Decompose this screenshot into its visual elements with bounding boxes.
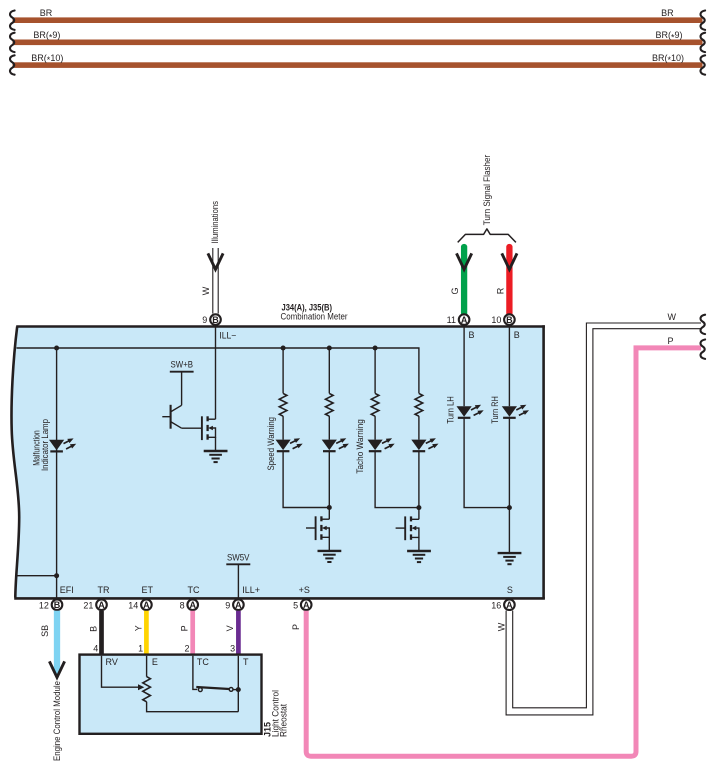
wire P pink +S long run [306, 348, 701, 756]
svg-text:5: 5 [293, 600, 298, 610]
continuation mark bar3 right [701, 55, 706, 74]
svg-text:12: 12 [39, 600, 49, 610]
svg-text:R: R [496, 287, 506, 294]
wire resistor bottom to T column [147, 702, 239, 712]
pin 12 B [52, 599, 63, 610]
continuation mark bar1 right [701, 11, 706, 30]
transistor Q1 SW+B bipolar [162, 372, 202, 429]
continuation mark bar2 left [10, 33, 15, 52]
resistor rheostat element [143, 677, 151, 702]
svg-text:Turn Signal Flasher: Turn Signal Flasher [482, 155, 492, 226]
svg-text:3: 3 [230, 643, 235, 653]
node T junction [236, 687, 241, 692]
wire tacho warning column 2 [418, 416, 420, 440]
continuation mark P wire [701, 340, 706, 359]
wire ILL- vertical from pin 9 to FET drain [215, 327, 217, 420]
svg-text:A: A [235, 600, 242, 610]
wire BR bar 1 [13, 17, 703, 23]
svg-text:SW+B: SW+B [171, 359, 194, 369]
svg-text:A: A [98, 600, 105, 610]
svg-text:TC: TC [188, 585, 200, 595]
svg-text:B: B [506, 315, 513, 325]
svg-text:ILL+: ILL+ [242, 585, 260, 595]
LED tacho warning 1 [368, 438, 395, 451]
pin 11 A [459, 314, 470, 325]
svg-text:E: E [152, 657, 158, 667]
arrow to engine control module [49, 661, 64, 677]
wire malfunction lamp column [56, 348, 58, 598]
ground (tacho warning) [407, 551, 431, 562]
resistor tacho warning 1 [371, 393, 379, 416]
svg-text:B: B [212, 315, 219, 325]
svg-text:B: B [89, 626, 99, 632]
wire R red [506, 247, 512, 314]
svg-text:A: A [506, 600, 513, 610]
wire W from pin 16 (double line) [506, 323, 701, 715]
svg-text:P: P [668, 336, 674, 346]
wire BR bar 3 [13, 62, 703, 68]
svg-text:Turn RH: Turn RH [490, 396, 500, 424]
resistor speed warning 1 [279, 393, 287, 416]
brace Turn Signal Flasher [458, 229, 516, 243]
svg-text:T: T [243, 657, 249, 667]
svg-text:A: A [143, 600, 150, 610]
wire E to resistor [146, 656, 148, 677]
svg-text:Turn LH: Turn LH [446, 396, 456, 424]
LED speed warning 2 [322, 438, 349, 451]
pin 14 A [141, 599, 152, 610]
svg-text:4: 4 [93, 643, 98, 653]
svg-text:A: A [303, 600, 310, 610]
node SW5V rail bar [226, 563, 250, 565]
wire B black TR to rheostat pin 4 [99, 611, 104, 655]
wire EFI branch to left edge [15, 575, 57, 577]
LED tacho warning 2 [411, 438, 438, 451]
svg-text:SW5V: SW5V [227, 553, 250, 563]
svg-text:Rheostat: Rheostat [279, 704, 289, 737]
pin 9 A [233, 599, 244, 610]
transistor U1 MOSFET (illumination driver) [202, 416, 216, 450]
node EFI junction [54, 573, 59, 578]
wire TC to switch contact [193, 656, 197, 690]
continuation mark bar2 right [701, 33, 706, 52]
svg-text:SB: SB [40, 625, 50, 637]
rheostat box J15 [80, 655, 262, 734]
svg-text:EFI: EFI [60, 585, 74, 595]
continuation mark bar1 left [10, 11, 15, 30]
continuation mark W wire [701, 315, 706, 334]
svg-text:Speed Warning: Speed Warning [266, 417, 276, 471]
transistor U3 MOSFET (tacho warning driver) [396, 516, 419, 550]
LED turn LH [457, 405, 484, 418]
pin 16 A [504, 599, 515, 610]
wire turn LH column [463, 327, 465, 407]
svg-text:10: 10 [491, 315, 501, 325]
ground (turn signals) [498, 553, 522, 564]
svg-text:9: 9 [202, 315, 207, 325]
wire W Illuminations double line [213, 248, 218, 314]
svg-text:16: 16 [491, 600, 501, 610]
svg-text:Indicator Lamp: Indicator Lamp [40, 419, 50, 471]
wire tacho FET drain feed [418, 508, 420, 520]
combination meter box J34/J35 [12, 327, 544, 598]
wire RV to wiper [102, 656, 139, 687]
node speed cathode junction [327, 505, 332, 510]
pin 8 A [187, 599, 198, 610]
resistor speed warning 2 [326, 393, 334, 416]
wiper arrowhead [138, 684, 144, 690]
wire P pink TC to rheostat pin 2 [190, 611, 195, 655]
resistor tacho warning 2 [415, 393, 423, 416]
svg-text:W: W [496, 622, 506, 631]
svg-text:B: B [469, 330, 475, 340]
wire bus ILL- rail [17, 348, 419, 393]
svg-text:A: A [461, 315, 468, 325]
svg-text:21: 21 [83, 600, 93, 610]
node tacho cathode junction [416, 505, 421, 510]
wire speed FET drain feed [328, 508, 330, 520]
svg-text:Combination Meter: Combination Meter [281, 312, 348, 322]
svg-text:11: 11 [447, 315, 456, 325]
switch contact TC side [198, 688, 202, 692]
node bus-speed2 junction [327, 346, 332, 351]
pin 9 B [210, 314, 221, 325]
transistor U2 MOSFET (speed warning driver) [306, 516, 329, 550]
ground (illumination driver) [204, 451, 228, 462]
node bus-tacho1 junction [373, 346, 378, 351]
svg-text:P: P [180, 625, 190, 631]
arrow on R wire [502, 253, 517, 269]
ground (speed warning) [318, 551, 342, 562]
svg-text:8: 8 [180, 600, 185, 610]
svg-text:9: 9 [225, 600, 230, 610]
node bus-malfunction junction [54, 346, 59, 351]
wire SB to engine control module [54, 611, 60, 674]
svg-text:ET: ET [142, 585, 154, 595]
wire contact to T junction [233, 689, 238, 691]
LED turn RH [502, 405, 529, 418]
wire SW5V to pin ILL+ [237, 564, 239, 598]
svg-text:S: S [507, 585, 513, 595]
node bus-speed1 junction [281, 346, 286, 351]
svg-text:RV: RV [106, 657, 118, 667]
continuation mark bar3 left [10, 55, 15, 74]
svg-text:W: W [668, 312, 677, 322]
arrow into pin 9 [208, 253, 223, 269]
svg-text:V: V [225, 625, 235, 631]
svg-text:ILL−: ILL− [219, 331, 236, 341]
pin 21 A [96, 599, 107, 610]
node turn cathode junction [507, 505, 512, 510]
svg-text:BR: BR [40, 8, 53, 18]
svg-text:TR: TR [98, 585, 110, 595]
LED speed warning 1 [276, 438, 303, 451]
wire BR bar 2 [13, 40, 703, 46]
LED malfunction indicator lamp [49, 438, 76, 451]
switch contact T side [229, 688, 233, 692]
svg-text:Engine Control Module: Engine Control Module [52, 681, 62, 761]
wire speed warning column 1 [282, 348, 284, 393]
svg-text:P: P [291, 624, 301, 630]
svg-text:14: 14 [128, 600, 138, 610]
svg-text:B: B [514, 330, 520, 340]
svg-text:1: 1 [138, 643, 143, 653]
arrow on G wire [457, 253, 472, 269]
switch blade [196, 687, 229, 689]
svg-text:Tacho Warning: Tacho Warning [355, 419, 365, 474]
wire V violet ILL+ to rheostat pin 3 [236, 611, 241, 655]
svg-text:Illuminations: Illuminations [210, 201, 220, 244]
svg-text:BR: BR [661, 8, 674, 18]
svg-text:G: G [450, 287, 460, 294]
wire speed warning column 2 [328, 348, 330, 393]
wire turn RH column [508, 327, 510, 407]
wire G green [461, 247, 467, 314]
wire T column [237, 656, 239, 712]
svg-text:W: W [201, 286, 211, 295]
svg-text:TC: TC [197, 657, 209, 667]
svg-text:+S: +S [299, 585, 310, 595]
pin 10 B [504, 314, 515, 325]
svg-text:Y: Y [133, 625, 143, 631]
svg-text:A: A [189, 600, 196, 610]
wire tacho warning column 1 [374, 348, 376, 393]
svg-text:B: B [54, 600, 61, 610]
pin 5 A [301, 599, 312, 610]
svg-text:2: 2 [184, 643, 189, 653]
wire Y yellow ET to rheostat pin 1 [144, 611, 149, 655]
